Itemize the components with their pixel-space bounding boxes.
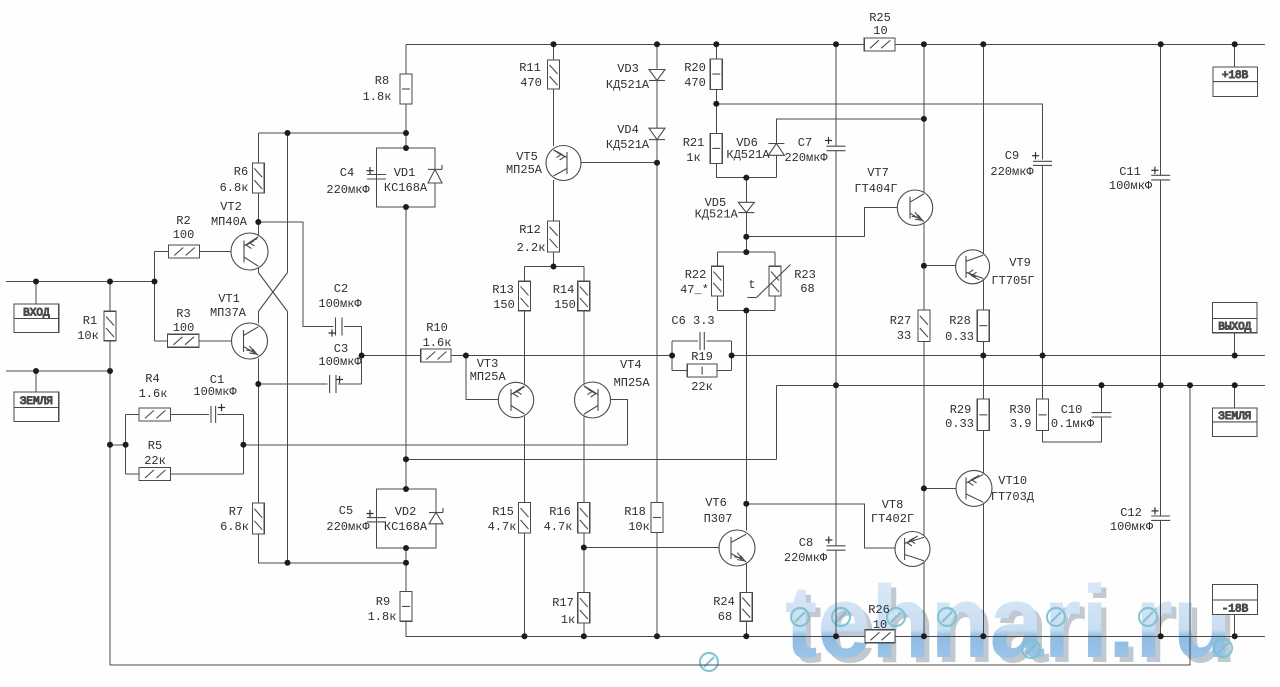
- svg-text:R1: R1: [83, 314, 97, 328]
- svg-text:6.8к: 6.8к: [220, 520, 249, 534]
- resistor R1: [104, 311, 116, 341]
- wire C6 right lead: [706, 340, 731, 342]
- svg-text:1.8к: 1.8к: [363, 90, 392, 104]
- wire VT7 collector from rail: [923, 44, 925, 193]
- resistor R14: [578, 281, 590, 311]
- wire upper cross column x287 from rail y133: [287, 133, 289, 273]
- resistor R29: [977, 399, 989, 431]
- resistor R18: [651, 503, 663, 533]
- svg-text:R22: R22: [685, 268, 707, 282]
- wire VT3 base branch: [466, 356, 511, 400]
- svg-text:VT10: VT10: [998, 474, 1027, 488]
- svg-text:470: 470: [520, 76, 542, 90]
- svg-text:100: 100: [173, 228, 195, 242]
- resistor R22: [711, 266, 723, 296]
- svg-text:10к: 10к: [628, 520, 650, 534]
- svg-text:КС168А: КС168А: [384, 520, 428, 534]
- polarity + C5: [366, 513, 373, 515]
- wire VD6 cathode elbow to VT7 collector node: [776, 119, 924, 143]
- wire R13 R14 top bracket: [525, 266, 584, 268]
- wire lower cross column x287 down to R7 node: [287, 312, 289, 563]
- svg-text:R2: R2: [176, 214, 190, 228]
- transistor VT4: [575, 382, 611, 418]
- transistor VT10: [956, 470, 992, 506]
- svg-text:C12: C12: [1120, 506, 1142, 520]
- resistor R28: [977, 310, 989, 342]
- capacitor C10: [1092, 412, 1112, 414]
- wire VT5 base to diode column: [567, 162, 657, 164]
- svg-text:C11: C11: [1119, 165, 1141, 179]
- wire VT9 base link: [924, 265, 966, 267]
- svg-text:П307: П307: [704, 512, 733, 526]
- svg-text:МП25А: МП25А: [614, 376, 651, 390]
- terminal ЗЕМЛЯ left ground: [14, 392, 59, 421]
- wire bottom ground return: [110, 385, 1190, 665]
- wire VT9 collector from rail: [982, 44, 984, 253]
- svg-text:R20: R20: [684, 61, 706, 75]
- svg-text:R3: R3: [176, 307, 190, 321]
- resistor R24: [740, 593, 752, 622]
- wire R8 top from rail: [405, 44, 407, 74]
- svg-text:VT4: VT4: [620, 358, 642, 372]
- capacitor C6: [699, 332, 701, 350]
- svg-text:68: 68: [718, 610, 732, 624]
- wire cross-couple VT1 collector stub: [257, 312, 259, 324]
- svg-text:4.7к: 4.7к: [544, 520, 573, 534]
- wire VD5 top from R21 node: [745, 178, 747, 203]
- wire -18V rail right of R26: [895, 635, 1265, 637]
- svg-text:VT7: VT7: [867, 166, 889, 180]
- wire VT1 emitter node down to R7: [257, 384, 259, 503]
- wire VT8 collector to -18V rail: [923, 563, 925, 637]
- svg-text:ВЫХОД: ВЫХОД: [1218, 322, 1251, 334]
- wire C3 left lead: [258, 383, 327, 385]
- svg-text:C2: C2: [334, 282, 348, 296]
- wire R22R23 top bracket: [717, 251, 775, 253]
- svg-text:VT3: VT3: [477, 357, 499, 371]
- zener diode VD2: [429, 513, 443, 524]
- svg-text:R8: R8: [375, 74, 389, 88]
- diode VD6: [768, 144, 784, 156]
- svg-text:R28: R28: [949, 314, 971, 328]
- wire C3 right lead: [338, 383, 362, 385]
- wire diode column down to R18: [656, 163, 658, 503]
- svg-text:1.6к: 1.6к: [139, 387, 168, 401]
- wire C10 top to ground rail: [1101, 385, 1103, 412]
- svg-text:ГТ404Г: ГТ404Г: [854, 182, 897, 196]
- wire VT6 collector to VT8 base link: [746, 504, 904, 548]
- svg-text:ВХОД: ВХОД: [23, 307, 50, 319]
- wire R4R5 left bracket: [125, 414, 127, 474]
- polarity + C7: [825, 140, 832, 142]
- svg-text:R13: R13: [492, 283, 514, 297]
- wire left ground down-column: [109, 371, 111, 665]
- svg-text:0.1мкФ: 0.1мкФ: [1051, 417, 1095, 431]
- resistor R16: [578, 503, 590, 534]
- wire R28 bottom to output: [982, 341, 984, 355]
- wire C11 bottom to ground rail: [1160, 180, 1162, 385]
- svg-text:МП25А: МП25А: [506, 163, 543, 177]
- polarity + C4: [366, 170, 373, 172]
- terminal ВХОД input: [14, 304, 59, 333]
- svg-text:ЗЕМЛЯ: ЗЕМЛЯ: [20, 396, 53, 408]
- svg-text:150: 150: [554, 298, 576, 312]
- svg-text:68: 68: [800, 282, 814, 296]
- svg-text:1.8к: 1.8к: [368, 610, 397, 624]
- wire R22R23 bottom bracket: [717, 310, 775, 312]
- wire input line: [6, 281, 155, 283]
- wire R7 bottom elbow to VD2 node: [258, 534, 406, 563]
- svg-text:150: 150: [493, 298, 515, 312]
- svg-text:1к: 1к: [686, 151, 700, 165]
- wire VT9 emitter to R28: [982, 281, 984, 310]
- terminal +18В supply: [1213, 67, 1258, 97]
- svg-text:C10: C10: [1061, 403, 1083, 417]
- svg-text:R6: R6: [234, 165, 248, 179]
- wire output line R10 to C6R19 block: [451, 355, 672, 357]
- wire R15 bottom to -18V rail: [524, 533, 526, 636]
- transistor VT5: [546, 146, 581, 181]
- wire C11 top from rail: [1160, 44, 1162, 175]
- wire R2 left: [155, 251, 169, 253]
- resistor R17: [578, 593, 590, 624]
- wire R14 bottom to VT4 emitter: [583, 311, 585, 384]
- svg-text:VT1: VT1: [218, 292, 240, 306]
- wire +18V terminal drop: [1234, 44, 1236, 67]
- wire R20 top from rail: [715, 44, 717, 59]
- wire R4R5 right bracket: [242, 414, 244, 474]
- svg-text:VT2: VT2: [220, 200, 242, 214]
- svg-text:R23: R23: [794, 268, 816, 282]
- wire R13 bottom to VT3 emitter: [524, 311, 526, 384]
- svg-text:R10: R10: [426, 321, 448, 335]
- svg-text:-18В: -18В: [1222, 603, 1249, 615]
- svg-text:КД521А: КД521А: [606, 78, 650, 92]
- wire VT7 base link: [746, 208, 910, 237]
- svg-text:R12: R12: [519, 223, 541, 237]
- resistor R6: [252, 163, 264, 193]
- capacitor C2: [335, 318, 337, 336]
- wire -18V terminal drop: [1234, 615, 1236, 637]
- wire VT4 base feedback line y444: [243, 444, 627, 446]
- wire zener mid to ground corner y459: [406, 458, 776, 460]
- svg-text:220мкФ: 220мкФ: [784, 151, 828, 165]
- wire VD5 bottom to bias nodes: [745, 213, 747, 253]
- svg-text:VT8: VT8: [882, 498, 904, 512]
- svg-text:R26: R26: [868, 603, 890, 617]
- svg-text:VT6: VT6: [705, 496, 727, 510]
- wire R6 top: [257, 133, 259, 163]
- terminal ЗЕМЛЯ right ground: [1213, 408, 1257, 437]
- svg-text:100мкФ: 100мкФ: [318, 355, 362, 369]
- transistor VT7: [897, 190, 932, 225]
- wire ground terminal right drop: [1234, 385, 1236, 408]
- svg-text:C7: C7: [798, 136, 812, 150]
- svg-text:R11: R11: [519, 61, 541, 75]
- wire R16 bottom: [583, 533, 585, 548]
- wire VT4 base elbow: [598, 399, 628, 444]
- svg-text:VD4: VD4: [617, 123, 639, 137]
- wire VT6 emitter to R24: [745, 564, 747, 593]
- capacitor C1: [210, 406, 212, 423]
- svg-text:C4: C4: [340, 166, 354, 180]
- svg-text:ГТ705Г: ГТ705Г: [991, 274, 1034, 288]
- wire VT1 emitter down to C3 node: [257, 359, 259, 385]
- wire output line right of C6R19 block: [732, 355, 1265, 357]
- svg-text:VT5: VT5: [516, 150, 538, 164]
- svg-text:R29: R29: [950, 403, 972, 417]
- wire C6R19 right bracket: [731, 341, 733, 371]
- polarity + C8: [825, 539, 832, 541]
- wire R16/R17 node to R17: [583, 548, 585, 593]
- wire input terminal drop: [35, 282, 37, 305]
- wire R23 top: [774, 252, 776, 266]
- svg-text:C3: C3: [334, 342, 348, 356]
- wire VT10 collector to -18V rail: [982, 504, 984, 637]
- svg-text:ГТ703Д: ГТ703Д: [991, 490, 1035, 504]
- wire cross-couple diagonal VT2 to lower column: [258, 273, 287, 312]
- svg-text:220мкФ: 220мкФ: [990, 165, 1034, 179]
- wire C6R19 left bracket: [671, 341, 673, 371]
- svg-text:R4: R4: [145, 372, 159, 386]
- polarity + C2: [328, 332, 335, 334]
- wire R14 top: [583, 267, 585, 282]
- wire R11 bottom to VT5: [553, 89, 555, 146]
- wire VD3 top from rail: [656, 44, 658, 68]
- wire R17 bottom to -18V rail: [583, 623, 585, 636]
- wire VT2 emitter node to C2: [258, 222, 333, 327]
- wire R3 left: [155, 340, 168, 342]
- svg-text:100мкФ: 100мкФ: [1110, 520, 1154, 534]
- resistor R27: [918, 310, 930, 342]
- svg-text:100мкФ: 100мкФ: [193, 385, 237, 399]
- polarity + C1: [218, 407, 225, 409]
- svg-text:КД521А: КД521А: [726, 148, 770, 162]
- svg-text:1к: 1к: [561, 613, 575, 627]
- wire VT9 base node to R27: [923, 266, 925, 310]
- wire VT4 collector to R16: [583, 417, 585, 503]
- svg-text:100: 100: [173, 321, 195, 335]
- resistor R4: [139, 408, 170, 421]
- svg-text:t: t: [748, 278, 755, 292]
- wire ground line left: [6, 370, 110, 372]
- wire R21 bottom elbow: [716, 163, 776, 177]
- svg-text:47_*: 47_*: [680, 283, 709, 297]
- svg-text:4.7к: 4.7к: [488, 520, 517, 534]
- svg-text:R5: R5: [148, 439, 162, 453]
- wire +18V top rail right of R25: [895, 43, 1265, 45]
- wire R22 top: [716, 252, 718, 266]
- wire VD1 block bottom down to ground tap: [405, 207, 407, 489]
- transistor VT2: [231, 233, 268, 270]
- svg-text:R25: R25: [869, 11, 891, 25]
- polarity + C12: [1151, 510, 1158, 512]
- transistor VT9: [956, 250, 990, 284]
- svg-text:КД521А: КД521А: [695, 208, 739, 222]
- svg-text:КС168А: КС168А: [384, 181, 428, 195]
- resistor R19: [687, 364, 717, 377]
- wire C2 right to junction: [344, 327, 362, 385]
- resistor R2: [169, 245, 200, 258]
- svg-text:22к: 22к: [144, 454, 166, 468]
- svg-text:C9: C9: [1005, 149, 1019, 163]
- wire R4 right to C1: [170, 413, 209, 415]
- wire C7 top from rail: [835, 44, 837, 146]
- wire VT5 collector to R12: [553, 180, 555, 221]
- svg-text:3.9: 3.9: [1010, 417, 1032, 431]
- capacitor C11: [1151, 174, 1170, 176]
- svg-text:100мкФ: 100мкФ: [1109, 179, 1153, 193]
- svg-text:R27: R27: [890, 314, 912, 328]
- wire C12 bottom to -18V rail: [1160, 520, 1162, 636]
- svg-text:КД521А: КД521А: [606, 138, 650, 152]
- polarity + C3: [336, 379, 343, 381]
- wire R12 bottom: [553, 252, 555, 267]
- wire R20 bottom to R21 node: [715, 89, 717, 133]
- terminal ВЫХОД output: [1213, 303, 1257, 333]
- zener block VD1/C4 outline: [377, 148, 435, 207]
- resistor R7: [252, 503, 264, 534]
- transistor VT8: [895, 532, 930, 567]
- resistor R10: [421, 349, 451, 362]
- capacitor C5: [367, 517, 386, 519]
- wire C7 bottom to ground rail and C8: [835, 151, 837, 546]
- wire R24 bottom to -18V rail: [745, 621, 747, 636]
- wire ground corner riser x776: [775, 385, 777, 459]
- wire R18 bottom to -18V rail: [656, 533, 658, 637]
- thermistor R23: [769, 266, 781, 296]
- wire VT10 base link: [924, 487, 966, 489]
- wire R23 bottom: [774, 296, 776, 311]
- svg-text:22к: 22к: [691, 380, 713, 394]
- wire output line left of R10: [362, 355, 421, 357]
- polarity + C11: [1151, 169, 1158, 171]
- svg-text:ГТ402Г: ГТ402Г: [871, 512, 914, 526]
- svg-text:C8: C8: [799, 536, 813, 550]
- svg-text:R16: R16: [549, 505, 571, 519]
- diode VD5: [738, 202, 754, 212]
- wire VD6 anode lead: [775, 155, 777, 177]
- resistor R15: [519, 503, 531, 534]
- transistor VT1: [232, 323, 268, 359]
- wire VT7 emitter to VT9 base node: [923, 223, 925, 266]
- wire VD4 to VT5 base node: [656, 140, 658, 163]
- resistor R25: [864, 38, 895, 51]
- wire R1 top: [109, 282, 111, 312]
- svg-text:220мкФ: 220мкФ: [326, 183, 370, 197]
- svg-text:ЗЕМЛЯ: ЗЕМЛЯ: [1218, 411, 1251, 423]
- wire R11 top from rail: [553, 44, 555, 60]
- wire VT10 base node to VT8 emitter: [923, 488, 925, 536]
- wire bias node down to VT6 collector: [745, 311, 747, 531]
- svg-text:0.33: 0.33: [945, 330, 974, 344]
- wire VT6 base line y547: [584, 547, 731, 549]
- wire input-stage supply rail y133: [258, 132, 406, 134]
- capacitor C7: [827, 145, 846, 147]
- wire R22 bottom: [716, 296, 718, 311]
- svg-text:R19: R19: [691, 350, 713, 364]
- svg-text:220мкФ: 220мкФ: [784, 551, 828, 565]
- wire R19 left lead: [672, 370, 687, 372]
- resistor R13: [519, 281, 531, 311]
- svg-text:VD1: VD1: [394, 166, 416, 180]
- wire input node riser to R2/R3: [154, 252, 156, 341]
- svg-text:VT9: VT9: [1009, 256, 1031, 270]
- diode VD3: [649, 70, 665, 81]
- wire R13 top: [524, 267, 526, 282]
- svg-text:R17: R17: [552, 596, 574, 610]
- wire R19 right lead: [717, 370, 732, 372]
- wire C6 left lead: [672, 340, 698, 342]
- wire R3 right to VT1 base: [199, 340, 244, 342]
- svg-text:100мкФ: 100мкФ: [318, 297, 362, 311]
- svg-text:VD2: VD2: [395, 505, 417, 519]
- wire ground terminal drop: [35, 371, 37, 392]
- svg-text:tehnari.ru: tehnari.ru: [785, 564, 1232, 679]
- svg-text:470: 470: [684, 76, 706, 90]
- svg-text:10: 10: [873, 618, 887, 632]
- svg-text:R18: R18: [624, 505, 646, 519]
- wire R8 bottom to VD1 block: [405, 104, 407, 148]
- capacitor C8: [827, 545, 846, 547]
- resistor R8: [400, 74, 412, 104]
- svg-text:33: 33: [897, 329, 911, 343]
- svg-text:МП25А: МП25А: [470, 370, 507, 384]
- resistor R30: [1037, 399, 1049, 431]
- wire +18V top rail left of R25: [406, 43, 864, 45]
- wire R5 right: [170, 473, 243, 475]
- svg-text:2.2к: 2.2к: [517, 241, 546, 255]
- wire R27 bottom to VT10 base node: [923, 341, 925, 488]
- wire C1 right to bracket: [218, 413, 244, 415]
- watermark copyright marks: [700, 608, 1232, 671]
- svg-text:МП37А: МП37А: [210, 306, 247, 320]
- svg-text:R14: R14: [553, 283, 575, 297]
- wire R5 left: [126, 473, 140, 475]
- wire R4 left: [126, 413, 140, 415]
- resistor R5: [139, 468, 170, 481]
- transistor VT3: [498, 382, 533, 417]
- svg-text:C6 3.3: C6 3.3: [671, 314, 714, 328]
- svg-text:220мкФ: 220мкФ: [326, 520, 370, 534]
- wire bootstrap line y104 to C9: [716, 104, 1042, 160]
- wire R1 bottom to ground line: [109, 341, 111, 371]
- svg-text:1.6к: 1.6к: [423, 336, 452, 350]
- wire VD2 block bottom to R9: [405, 548, 407, 592]
- svg-text:R7: R7: [229, 505, 243, 519]
- diode VD4: [649, 128, 665, 139]
- svg-text:R30: R30: [1009, 403, 1031, 417]
- wire ground rail right: [776, 384, 1265, 386]
- polarity + C9: [1032, 155, 1039, 157]
- wire cross-couple VT2 collector stub: [257, 268, 259, 273]
- svg-text:C5: C5: [339, 504, 353, 518]
- resistor R9: [400, 592, 412, 622]
- svg-text:10: 10: [873, 24, 887, 38]
- capacitor C4: [367, 174, 386, 176]
- svg-text:0.33: 0.33: [945, 417, 974, 431]
- capacitor C3: [329, 375, 331, 393]
- svg-text:R21: R21: [683, 136, 705, 150]
- wire R29 bottom to VT10 emitter: [982, 431, 984, 473]
- svg-text:R15: R15: [492, 505, 514, 519]
- wire R30 bottom to C10 bracket: [1043, 417, 1102, 442]
- resistor R12: [548, 221, 560, 252]
- wire output to R29: [982, 356, 984, 400]
- transistor VT6: [719, 530, 755, 566]
- zener block VD2/C5 outline: [377, 489, 437, 548]
- wire VD3 to VD4: [656, 81, 658, 129]
